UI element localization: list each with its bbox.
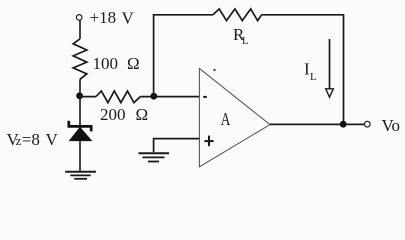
op-amp U1 triangle: [199, 69, 270, 167]
current arrow IL: [329, 39, 331, 89]
wire feedback riser: [153, 15, 155, 96]
wire noninverting input: [154, 139, 200, 153]
ground zener: [65, 171, 96, 173]
terminal +18V: [76, 15, 82, 21]
svg-text:o: o: [392, 116, 401, 135]
wire R200 to inverting input: [140, 96, 199, 98]
wire node A to R200: [80, 96, 96, 98]
zener diode D1 cathode bar: [68, 125, 93, 128]
svg-text:V: V: [122, 9, 135, 28]
stray dot: [213, 69, 215, 71]
wire top right: [262, 14, 345, 16]
wire supply to R100: [79, 20, 81, 39]
resistor RL: [213, 9, 262, 21]
wire top left: [153, 14, 213, 16]
wire node A to zener: [79, 96, 81, 126]
terminal Vo: [365, 121, 371, 127]
node output junction dot: [340, 121, 347, 128]
op-amp plus label: [204, 140, 213, 142]
wire zener to ground: [79, 141, 81, 171]
zener diode D1 anode triangle: [69, 127, 91, 140]
ground op-amp: [139, 152, 170, 154]
svg-text:+18: +18: [90, 8, 117, 27]
resistor 100 ohm: [73, 39, 87, 80]
wire op-amp output: [270, 123, 365, 125]
wire R100 to node A: [79, 79, 81, 96]
svg-text:Ω: Ω: [136, 105, 149, 124]
svg-text:L: L: [242, 36, 248, 47]
op-amp minus label: [203, 96, 207, 98]
svg-text:Ω: Ω: [127, 54, 140, 73]
svg-text:z: z: [16, 133, 22, 148]
svg-text:L: L: [310, 71, 317, 83]
wire right drop: [343, 15, 345, 124]
resistor 200 ohm: [96, 91, 140, 103]
svg-text:V: V: [46, 130, 59, 149]
svg-text:200: 200: [100, 105, 126, 124]
svg-text:100: 100: [93, 54, 119, 73]
node B junction dot: [150, 93, 157, 100]
svg-text:A: A: [221, 109, 231, 129]
node A junction dot: [76, 92, 83, 99]
svg-text:=8: =8: [22, 130, 40, 149]
